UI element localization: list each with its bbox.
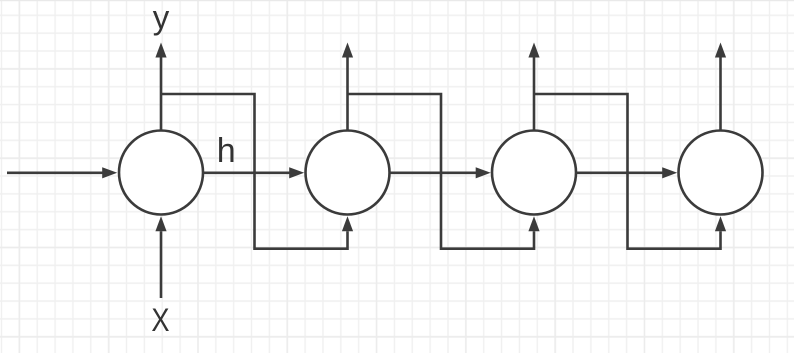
wire X input arrow into node 1 [155,216,166,298]
node circle 3 [492,131,576,215]
svg-text:h: h [217,132,236,170]
wire recurrent feedback node 2 to node 3 [348,94,540,249]
node circle 1 [119,131,203,215]
node circle 2 [306,131,390,215]
wire recurrent feedback node 1 to node 2 [161,94,353,249]
wire output arrow from node 4 [715,43,726,132]
wire output arrow from node 3 [528,43,539,132]
wire h arrow node 1 to node 2 [203,167,304,178]
wire output arrow from node 2 [342,43,353,132]
wire input arrow into node 1 [7,167,117,178]
wire arrow node 3 to node 4 [576,167,677,178]
wire arrow node 2 to node 3 [390,167,491,178]
wire recurrent feedback node 3 to node 4 [534,94,726,249]
svg-text:y: y [153,0,170,36]
svg-text:X: X [151,303,169,339]
node circle 4 [679,131,763,215]
wire output arrow y from node 1 [155,43,166,132]
